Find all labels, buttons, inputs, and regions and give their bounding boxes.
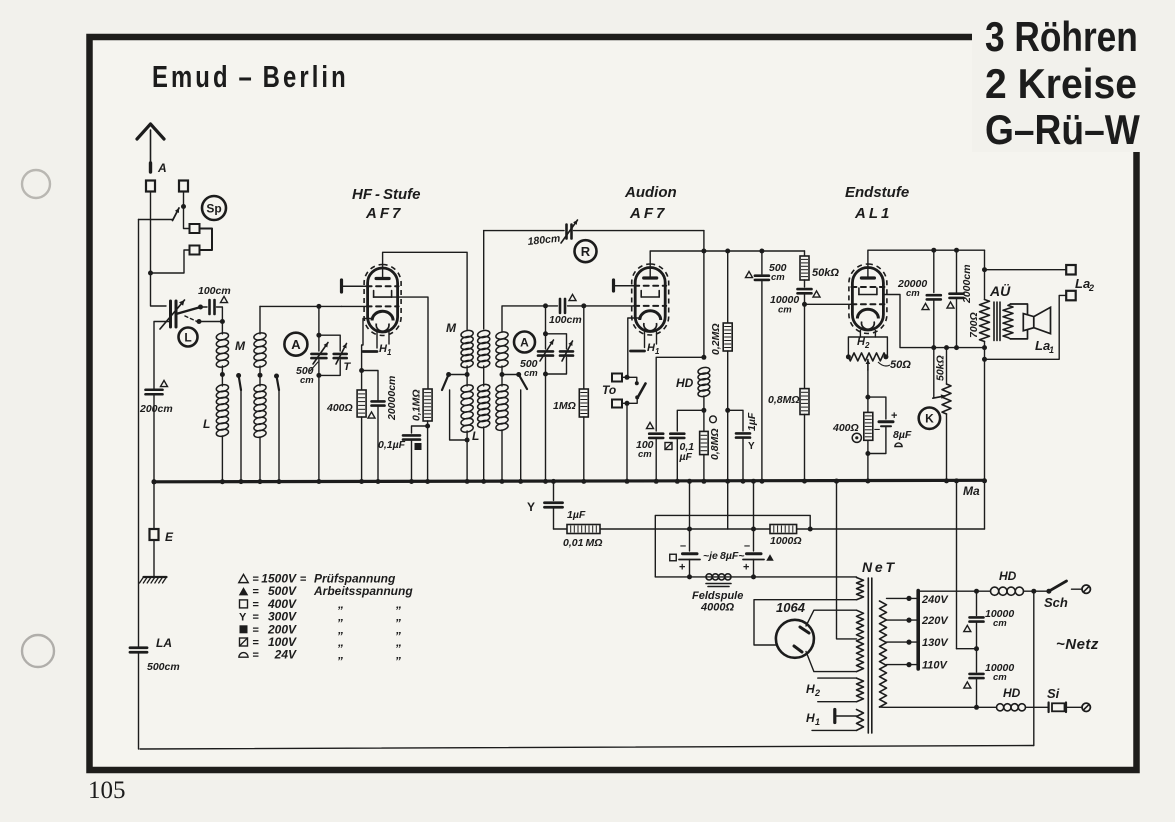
svg-text:=: = xyxy=(300,574,306,586)
capacitor 10000cm mains 1 xyxy=(976,591,978,615)
svg-text:220V: 220V xyxy=(921,615,949,627)
rectifier tube 1064 xyxy=(776,620,814,658)
terminal E xyxy=(152,479,157,484)
wire HD top branch to 100cm xyxy=(701,355,706,360)
svg-text:H: H xyxy=(806,682,815,696)
bias line corner xyxy=(655,515,810,577)
primary taps xyxy=(887,597,910,599)
punch hole bottom-left margin xyxy=(22,635,54,667)
wire cap to coil top xyxy=(217,307,223,334)
loudspeaker cone La1 xyxy=(1034,307,1051,333)
screen grid tube2 xyxy=(640,291,642,298)
coil L aerial long xyxy=(221,375,223,387)
svg-text:0,1MΩ: 0,1MΩ xyxy=(411,389,423,421)
screen lead tube3 xyxy=(884,295,934,348)
loudspeaker frame xyxy=(1011,304,1028,339)
svg-text:2000cm: 2000cm xyxy=(961,264,973,304)
title line 2: 2 Kreise xyxy=(985,60,1137,108)
circle marker K xyxy=(919,408,940,429)
connector bracket xyxy=(200,229,213,251)
heater H2 leads xyxy=(818,677,857,679)
capacitor 20000cm output xyxy=(931,248,936,253)
top line to HD drop xyxy=(574,230,704,232)
svg-text:1: 1 xyxy=(387,348,392,357)
circle marker Sp xyxy=(202,196,226,220)
svg-text:G–Rü–W: G–Rü–W xyxy=(985,107,1140,154)
svg-text:1: 1 xyxy=(655,347,660,356)
capacitor 100cm audion out xyxy=(649,432,663,435)
wavechange switch 2 xyxy=(274,374,279,379)
svg-text:400Ω: 400Ω xyxy=(326,402,353,414)
svg-text:1µF: 1µF xyxy=(567,509,586,521)
NeT winding H1 xyxy=(857,710,864,731)
svg-text:+: + xyxy=(743,562,749,574)
svg-text:cm: cm xyxy=(300,375,314,386)
trimmer audion xyxy=(546,334,567,349)
heater bracket tube3 xyxy=(859,331,861,338)
marker triangle xyxy=(813,291,820,297)
svg-text:AÜ: AÜ xyxy=(989,283,1011,299)
capacitor 1uF branch xyxy=(725,408,730,413)
svg-text:cm: cm xyxy=(778,305,792,316)
svg-text:Sp: Sp xyxy=(206,201,221,215)
resistor 0.1M ohm screen xyxy=(423,389,432,421)
wire A branch down xyxy=(318,306,320,335)
grid3 dashes tube2 xyxy=(634,305,666,307)
wavechange switch 1 xyxy=(236,373,241,378)
wire Sp terminal down to pivot xyxy=(183,192,185,207)
punch hole top-left margin xyxy=(22,170,50,198)
screen grid tube1 xyxy=(373,291,375,298)
cathode lead tube1 xyxy=(362,319,373,371)
svg-text:Y: Y xyxy=(527,500,535,514)
node below coil M audion xyxy=(465,372,470,377)
wire HD to switch xyxy=(1024,590,1049,592)
svg-text:50Ω: 50Ω xyxy=(890,359,911,371)
wire 500cm to node xyxy=(318,360,320,375)
svg-text:LA: LA xyxy=(156,636,172,650)
svg-text:1: 1 xyxy=(815,717,820,727)
rectifier anode wires xyxy=(806,610,857,626)
marker square diagonal 100V xyxy=(665,443,672,450)
capacitor 500cm anode xyxy=(759,249,764,254)
marker triangle 1500V xyxy=(221,296,228,302)
svg-text:A F 7: A F 7 xyxy=(365,205,401,222)
svg-text:–: – xyxy=(744,540,750,552)
coil L audion long xyxy=(466,375,468,387)
heater pins tube1 H1 xyxy=(376,333,378,349)
svg-text:100cm: 100cm xyxy=(198,285,231,297)
capacitor 200cm xyxy=(146,388,163,391)
svg-text:K: K xyxy=(925,412,934,426)
grid dashes tube3 xyxy=(851,303,884,305)
wire lower plate to left branch xyxy=(154,322,171,390)
transformer AU core xyxy=(993,302,995,341)
field coil line xyxy=(655,576,856,578)
svg-text:A L 1: A L 1 xyxy=(854,205,889,222)
svg-text:=: = xyxy=(253,599,259,611)
wire antenna down xyxy=(150,192,152,274)
svg-text:+: + xyxy=(679,562,685,574)
coil grid long xyxy=(259,375,261,386)
bus chassis Ma xyxy=(154,480,985,482)
svg-text:2: 2 xyxy=(814,688,820,698)
svg-text:R: R xyxy=(581,244,591,259)
svg-text:=: = xyxy=(253,612,259,624)
mains line top xyxy=(918,590,990,592)
grid1 dashes tube2 xyxy=(634,285,666,287)
node antenna junction xyxy=(148,271,153,276)
node below coil M xyxy=(220,372,225,377)
svg-text:H: H xyxy=(806,711,815,725)
electrolytic 8uF no1 xyxy=(687,479,692,484)
svg-text:A: A xyxy=(157,161,167,175)
resistor 0.2M xyxy=(725,249,730,254)
bias line xyxy=(554,528,811,530)
speaker return wire xyxy=(985,295,1067,359)
svg-text:110V: 110V xyxy=(922,660,949,672)
svg-text:Ma: Ma xyxy=(963,484,980,498)
grid1 dashes tube3 xyxy=(851,286,884,288)
top feedback line 180cm xyxy=(484,230,564,232)
terminal square antenna xyxy=(146,181,155,192)
anode lead tube2 xyxy=(650,251,704,277)
svg-text:700Ω: 700Ω xyxy=(968,312,980,338)
svg-text:2 Kreise: 2 Kreise xyxy=(985,60,1137,108)
svg-text:„: „ xyxy=(395,648,402,662)
switch Sch arm xyxy=(1049,581,1067,591)
outer border frame xyxy=(90,37,1137,770)
circle marker A audion xyxy=(514,332,535,353)
variable capacitor 500cm audion xyxy=(543,303,548,308)
resistor 400 ohm bias xyxy=(867,397,869,412)
NeT winding H2 xyxy=(857,678,864,702)
svg-text:1: 1 xyxy=(1049,345,1054,355)
NeT primary winding xyxy=(880,601,887,707)
electrolytic 8uF no2 xyxy=(751,479,756,484)
coil grid audion long xyxy=(501,375,503,387)
svg-text:240V: 240V xyxy=(921,594,949,606)
svg-text:Y: Y xyxy=(748,441,755,452)
circle marker A xyxy=(284,333,307,356)
capacitor 2000cm output xyxy=(954,248,959,253)
switch Sp arm with arrowhead xyxy=(181,204,186,209)
capacitor 100cm grid audion xyxy=(559,299,562,313)
title line 3: G-Rue-W xyxy=(985,107,1140,154)
screen lead tube1 xyxy=(392,297,428,389)
transformer AU primary 700ohm xyxy=(984,270,986,300)
svg-text:E: E xyxy=(165,530,174,544)
potentiometer 50 ohm hum xyxy=(846,354,851,359)
wire bias line drop xyxy=(727,481,729,529)
svg-text:N e T: N e T xyxy=(862,559,896,575)
antenna symbol xyxy=(150,130,152,166)
cathode tube2 xyxy=(640,311,661,320)
tube V3 AL1 xyxy=(849,264,887,334)
svg-text:0,1µF: 0,1µF xyxy=(378,439,406,451)
marker double circle xyxy=(852,433,861,442)
capacitor 8uF bias xyxy=(868,397,886,419)
svg-text:To: To xyxy=(602,383,616,397)
mains line bottom xyxy=(880,706,977,708)
variable capacitor 500cm HF xyxy=(311,353,326,356)
svg-text:1MΩ: 1MΩ xyxy=(553,400,576,412)
svg-text:L: L xyxy=(184,330,191,344)
svg-text:100cm: 100cm xyxy=(549,314,582,326)
svg-text:=: = xyxy=(253,586,259,598)
choke HD mains bottom xyxy=(997,704,1004,711)
wire audion tank to bus xyxy=(545,374,547,482)
svg-text:M: M xyxy=(446,321,457,335)
resistor 0.01M xyxy=(567,525,600,534)
svg-text:8µF: 8µF xyxy=(893,429,912,441)
wire To to bus xyxy=(626,403,628,481)
loudspeaker voice coil xyxy=(1023,314,1034,331)
svg-text:+: + xyxy=(891,410,897,422)
transformer AU secondary xyxy=(1003,305,1013,337)
resistor 0.8M audion xyxy=(703,410,705,431)
resistor 1M grid leak xyxy=(583,306,585,389)
cathode lead tube2 xyxy=(628,318,641,377)
grid line to tube2 xyxy=(568,305,636,307)
svg-text:~Netz: ~Netz xyxy=(1056,636,1099,653)
svg-text:A F 7: A F 7 xyxy=(629,205,665,222)
svg-text:Emud – Berlin: Emud – Berlin xyxy=(152,59,349,94)
svg-text:„: „ xyxy=(337,648,344,662)
choke HD audion xyxy=(697,366,710,375)
grid node AL1 xyxy=(802,302,807,307)
wire to 100cm cap xyxy=(201,306,208,308)
wire lower connector to antenna node xyxy=(151,250,190,273)
svg-text:L: L xyxy=(472,429,479,443)
HT centre tap wire xyxy=(834,479,839,484)
marker triangle xyxy=(964,682,971,688)
terminal mains 2 xyxy=(1066,706,1082,708)
marker triangle xyxy=(647,422,654,428)
cathode tube3 xyxy=(857,309,878,318)
capacitor 180cm xyxy=(565,225,568,239)
terminal tick A xyxy=(149,163,152,172)
trimmer T branch xyxy=(319,335,340,351)
coil M aerial xyxy=(216,332,230,341)
wire anode line to top line xyxy=(483,231,485,329)
marker triangle xyxy=(161,380,168,386)
wire junction to branch left xyxy=(139,219,151,221)
svg-text:A: A xyxy=(520,335,529,349)
svg-text:Audion: Audion xyxy=(624,184,677,201)
svg-text:M: M xyxy=(235,339,246,353)
heater pins tube2 H1 xyxy=(644,332,646,348)
svg-text:cm: cm xyxy=(771,272,785,283)
svg-text:cm: cm xyxy=(638,449,652,460)
grid1 dashes tube1 xyxy=(367,285,399,287)
capacitor 10000cm mains 2 xyxy=(976,649,978,672)
svg-text:130V: 130V xyxy=(922,637,949,649)
terminal mains 1 xyxy=(1072,588,1083,590)
marker triangle xyxy=(964,625,971,631)
ground symbol xyxy=(153,540,155,577)
wire AU to bus xyxy=(984,348,986,481)
potentiometer 50k xyxy=(944,345,949,350)
switch audion 1 xyxy=(446,372,451,377)
svg-text:cm: cm xyxy=(524,368,538,379)
marker triangle xyxy=(922,303,929,309)
heater H1 lead with chassis bar xyxy=(837,715,857,717)
transformer NeT core xyxy=(867,578,869,733)
svg-text:Endstufe: Endstufe xyxy=(845,184,909,201)
svg-text:–: – xyxy=(874,424,880,436)
capacitor 20000cm cathode xyxy=(362,371,378,402)
svg-text:0,01 MΩ: 0,01 MΩ xyxy=(563,537,602,549)
svg-text:cm: cm xyxy=(993,618,1007,629)
svg-text:L: L xyxy=(203,417,210,431)
wire antenna node down to tuning cap xyxy=(151,273,167,306)
resistor 50k anode xyxy=(804,251,806,256)
cathode tube1 xyxy=(372,311,393,320)
svg-text:1µF: 1µF xyxy=(746,412,758,431)
svg-text:24V: 24V xyxy=(274,648,297,662)
svg-text:La: La xyxy=(1075,276,1090,291)
svg-text:500cm: 500cm xyxy=(147,661,180,673)
connector square upper xyxy=(190,224,200,233)
marker triangle xyxy=(569,294,576,300)
svg-text:HF - Stufe: HF - Stufe xyxy=(352,186,421,203)
node below grid coil xyxy=(258,373,263,378)
switch arm wavechange xyxy=(176,308,199,315)
capacitor 1uF Y bus xyxy=(551,479,556,484)
anode lead tube1 xyxy=(383,252,468,330)
coil M audion xyxy=(460,329,474,338)
legend test voltages xyxy=(239,574,249,582)
svg-text:µF: µF xyxy=(679,451,693,463)
svg-text:0,2MΩ: 0,2MΩ xyxy=(710,323,722,355)
NeT winding HT xyxy=(857,610,864,671)
dashed switch throw xyxy=(185,316,197,322)
resistor 0.8M AL1 grid xyxy=(804,304,806,388)
field coil Feldspule xyxy=(706,574,712,580)
tube V2 AF7 xyxy=(632,264,669,335)
marker triangle xyxy=(746,271,753,277)
svg-text:1064: 1064 xyxy=(776,600,806,615)
coil grid audion xyxy=(502,306,546,332)
terminal square La2 xyxy=(1066,265,1076,275)
resistor 400 ohm cathode xyxy=(361,371,363,391)
capacitor 10000cm coupling xyxy=(804,280,806,287)
chassis bottom line xyxy=(140,746,1034,750)
svg-text:0,8MΩ: 0,8MΩ xyxy=(709,428,721,460)
terminal square Sp input xyxy=(179,181,188,192)
tube V1 AF7 xyxy=(364,265,401,336)
grid cap terminal tube2 xyxy=(612,280,615,291)
circle marker R xyxy=(575,240,597,262)
capacitor 0.1uF screen xyxy=(425,424,430,429)
wire grid line HF xyxy=(260,305,342,307)
svg-text:HD: HD xyxy=(676,376,694,390)
marker triangle xyxy=(368,412,375,418)
grid line audion xyxy=(546,305,558,307)
title line 1: 3 Roehren xyxy=(985,14,1138,61)
screen line right xyxy=(934,347,985,349)
svg-text:=: = xyxy=(253,637,259,649)
wire screen drop HD line xyxy=(703,231,705,358)
terminal square La1 xyxy=(1066,291,1076,301)
wire 200cm to bus xyxy=(153,395,155,482)
node below grid coil audion xyxy=(500,372,505,377)
capacitor LA 500cm xyxy=(130,646,147,649)
svg-text:Y: Y xyxy=(239,612,247,624)
svg-text:cm: cm xyxy=(993,672,1007,683)
svg-text:=: = xyxy=(253,650,259,662)
heading Emud - Berlin xyxy=(152,59,349,94)
svg-text:Feldspule: Feldspule xyxy=(692,590,743,602)
svg-text:200cm: 200cm xyxy=(139,403,173,415)
svg-text:cm: cm xyxy=(906,288,920,299)
svg-text:20000cm: 20000cm xyxy=(386,376,398,421)
wire left drop to LA xyxy=(138,220,140,648)
svg-text:4000Ω: 4000Ω xyxy=(700,602,734,614)
coil grid top secondary xyxy=(259,306,261,334)
wire coil L to bus xyxy=(221,436,223,482)
marker half circle 24V xyxy=(895,443,902,447)
svg-text:0,8MΩ: 0,8MΩ xyxy=(768,394,800,406)
svg-text:3 Röhren: 3 Röhren xyxy=(985,14,1138,61)
coil secondary mid audion xyxy=(477,329,491,338)
circle marker L xyxy=(179,328,198,347)
voltage selector bar xyxy=(916,591,920,670)
svg-text:Si: Si xyxy=(1047,686,1060,701)
capacitor 100cm antenna xyxy=(208,300,211,314)
svg-text:2: 2 xyxy=(1088,283,1094,293)
bias line extension to AU drop xyxy=(808,527,813,532)
svg-text:50kΩ: 50kΩ xyxy=(935,355,947,381)
anode rail audion xyxy=(704,250,805,252)
fuse Si xyxy=(1026,706,1049,708)
choke HD mains top xyxy=(991,587,999,595)
svg-text:50kΩ: 50kΩ xyxy=(812,267,839,279)
svg-text:La: La xyxy=(1035,338,1050,353)
marker circle 24V xyxy=(710,416,717,423)
switch To xyxy=(612,374,622,382)
svg-text:~je 8µF~: ~je 8µF~ xyxy=(703,550,744,562)
marker filled square 200V xyxy=(415,443,422,450)
rectifier output wire xyxy=(754,600,857,645)
resistor 1000 ohm xyxy=(770,525,797,534)
grid line into tube1 xyxy=(342,305,368,307)
anode lead tube3 xyxy=(868,250,985,277)
svg-text:=: = xyxy=(253,574,259,586)
wire A branch to bus xyxy=(318,375,320,481)
wiper line 50k pot xyxy=(933,348,935,398)
svg-text:=: = xyxy=(253,624,259,636)
svg-text:HD: HD xyxy=(999,569,1017,583)
NeT winding rectifier xyxy=(857,578,864,600)
wire pivot to connector bracket xyxy=(184,207,190,229)
svg-text:A: A xyxy=(291,337,301,352)
marker triangle xyxy=(947,302,954,308)
connector square lower xyxy=(190,246,200,255)
svg-text:HD: HD xyxy=(1003,686,1021,700)
grid3 dashes tube1 xyxy=(367,305,399,307)
svg-text:105: 105 xyxy=(88,777,126,804)
wire anode rail corner to La2 xyxy=(984,250,986,270)
svg-text:–: – xyxy=(680,540,686,552)
svg-text:400Ω: 400Ω xyxy=(832,422,859,434)
switch line to chassis xyxy=(1033,591,1035,745)
screen grid tube3 xyxy=(858,288,860,295)
marker small square xyxy=(670,554,677,561)
marker filled triangle 500V xyxy=(766,554,774,561)
svg-text:Sch: Sch xyxy=(1044,595,1068,610)
